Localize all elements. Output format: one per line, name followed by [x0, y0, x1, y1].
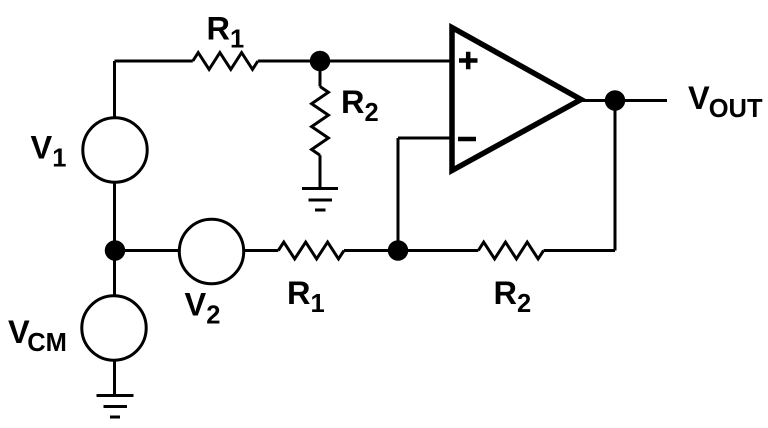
wire R2 bottom lead — [319, 155, 322, 188]
wire top horizontal left of R1 — [115, 60, 193, 63]
resistor R2 (vertical) — [312, 87, 329, 156]
wire V2 to R1 bottom — [244, 249, 279, 252]
op-amp plus input marking — [459, 52, 478, 69]
op-amp minus input marking — [458, 137, 476, 142]
wire R2 bottom to output branch — [544, 249, 615, 252]
wire R1 bottom to node B — [344, 249, 398, 252]
node A junction — [105, 240, 126, 261]
wire feedback vertical — [397, 138, 400, 251]
wire node B to R2 bottom — [398, 249, 478, 252]
wire output vertical — [614, 101, 617, 251]
node output junction — [605, 90, 626, 111]
node B junction — [388, 240, 409, 261]
resistor R1 (bottom) — [278, 242, 344, 259]
wire top-left vertical — [113, 61, 116, 119]
wire VCM to ground — [113, 360, 116, 396]
ground (below R2) — [302, 189, 338, 211]
voltage source V2 — [179, 219, 243, 283]
wire node A to V2 — [115, 249, 181, 252]
resistor R1 (top) — [193, 53, 258, 70]
wire top horizontal right of R1 to op-amp — [258, 60, 452, 63]
voltage source VCM — [82, 296, 146, 360]
resistor R2 (bottom) — [478, 242, 543, 259]
ground (below VCM) — [97, 396, 134, 418]
wire R2 top lead — [319, 61, 322, 87]
wire V1 bottom to node A — [113, 182, 116, 297]
node junction (R1/R2 top) — [310, 51, 331, 72]
wire op-amp output — [581, 99, 667, 102]
wire to inverting input — [398, 137, 452, 140]
op-amp U1 — [452, 28, 581, 171]
voltage source V1 — [83, 118, 147, 182]
